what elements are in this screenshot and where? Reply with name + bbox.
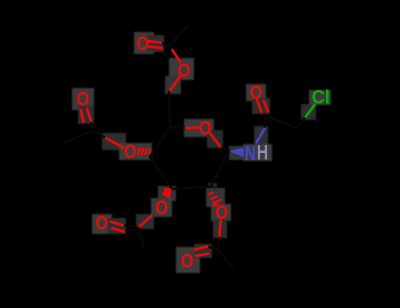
wire left acetyl methyl <box>65 131 93 143</box>
wire N-C(=O) blue half <box>257 129 265 142</box>
red bonds <box>81 41 268 256</box>
wire C5-O5 red half <box>186 126 198 129</box>
amide C=O double bond <box>257 100 261 112</box>
svg-text:O: O <box>199 117 212 139</box>
svg-text:N: N <box>245 142 256 164</box>
dark carbon skeleton <box>65 26 306 267</box>
wire C1-C2 <box>211 151 229 187</box>
svg-text:O: O <box>77 88 90 110</box>
wire CH2-Cl green half <box>306 105 315 117</box>
svg-text:O: O <box>181 250 194 272</box>
wire N-C dark half <box>264 116 265 129</box>
svg-text:H: H <box>257 140 268 164</box>
wire Ctop-O6 bond <box>172 50 180 62</box>
wire amide C-CH2 <box>266 116 296 128</box>
halo amide O= label <box>246 84 266 101</box>
wire C4-C5 <box>150 127 170 157</box>
halo N-C bond <box>254 126 268 144</box>
bold wedge C1-N <box>229 148 243 157</box>
halo O4-C bond <box>102 133 126 150</box>
bottom-left acetyl C=O double bond <box>111 222 123 225</box>
halo O3 wedge <box>158 186 176 201</box>
bottom-right acetyl C=O double bond <box>195 246 207 249</box>
halo bottom-left O= label <box>92 214 112 234</box>
halo top acetyl double bond <box>147 35 164 52</box>
wire O3-C bond <box>140 216 152 227</box>
wire C5-C6 <box>169 91 170 127</box>
wire CH2-Cl dark half <box>296 117 306 128</box>
wire O5-C1 red part <box>210 133 221 147</box>
halo left acetyl O= label <box>72 88 94 110</box>
halo top acetyl O= label <box>134 32 154 54</box>
wire C5-O5 dark half <box>170 126 186 129</box>
wire bottom-right acetyl methyl <box>217 249 234 267</box>
bold wedge C3-O3 <box>162 188 172 199</box>
wire O2-C bond <box>219 221 221 236</box>
svg-text:O: O <box>124 141 137 163</box>
halo left acetyl double bond <box>78 106 94 124</box>
top acetyl C=O double bond <box>149 41 161 42</box>
halo O2 label <box>211 204 231 221</box>
halo Cl label <box>309 90 331 105</box>
halo O2-C bond <box>213 219 227 238</box>
halo O6 label <box>169 58 194 80</box>
svg-text:O: O <box>215 202 228 224</box>
left acetyl C=O double bond <box>81 110 84 122</box>
halo N-C1 wedge <box>229 146 244 160</box>
halo ring O5 label <box>184 119 214 137</box>
halo amide double bond <box>252 98 270 114</box>
svg-text:O: O <box>137 33 150 55</box>
svg-text:Cl: Cl <box>312 86 330 108</box>
svg-text:O: O <box>96 212 109 234</box>
wire C3-C4 <box>150 157 172 189</box>
halo O4 label + hashes <box>119 143 152 160</box>
halo bottom-right double bond <box>194 244 212 258</box>
wire top acetyl C=O dark ends <box>161 43 169 45</box>
halo Cl-CH2 bond <box>301 104 316 120</box>
wire O4-C dark half <box>93 131 106 139</box>
hashed wedge C4-O4 <box>138 148 150 156</box>
halo O3 label <box>151 198 172 217</box>
wire bottom-left acetyl methyl <box>139 228 145 248</box>
wire O5-C1 dark part <box>220 146 229 151</box>
svg-text:O: O <box>156 197 169 219</box>
svg-text:O: O <box>178 60 191 82</box>
wire bottom-right acetyl C=O dark ends <box>207 246 215 248</box>
wire O4-C red half <box>106 138 123 147</box>
wire O6-C6 bond <box>170 77 180 90</box>
halo bottom-right O= label <box>176 247 200 273</box>
halo O3-C bond <box>136 214 154 229</box>
halo O2 hashes <box>206 188 225 207</box>
wire left acetyl C=O dark ends <box>84 122 86 129</box>
wire C2-C3 <box>172 187 211 190</box>
wire bottom-left acetyl C=O dark ends <box>123 225 137 227</box>
hashed wedge C2-O2 <box>208 192 221 206</box>
wire bottom-right O2-C dark part <box>218 236 220 249</box>
artifact green smudge near C2 <box>208 183 217 187</box>
wire top acetyl methyl <box>169 26 188 46</box>
halo NH label <box>243 144 272 161</box>
atom labels <box>77 33 330 272</box>
halo O5-C1 bond <box>207 130 223 148</box>
halo bottom-left double bond <box>108 218 126 234</box>
halo O6-C6 bond <box>165 76 181 94</box>
svg-text:O: O <box>250 82 263 104</box>
